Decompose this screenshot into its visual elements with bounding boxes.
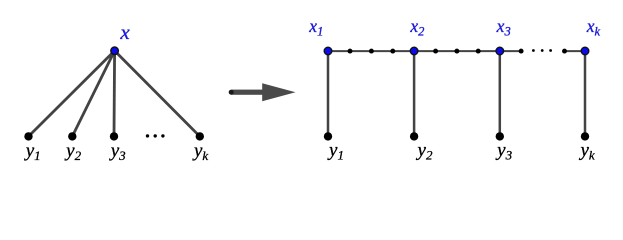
svg-text:x: x [119, 20, 130, 44]
